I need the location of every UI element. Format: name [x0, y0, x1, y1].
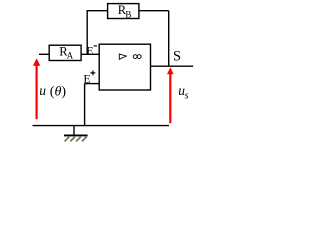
ground	[64, 126, 88, 142]
wire ground rail	[33, 125, 170, 127]
op-amp triangle (infinite gain symbol)	[119, 54, 126, 59]
wire E+ down to ground rail	[84, 84, 86, 126]
svg-text:s: s	[185, 91, 189, 102]
resistor RB	[108, 3, 139, 19]
label E- (inverting input)	[86, 44, 97, 58]
wire feedback top-right horizontal	[139, 10, 169, 12]
wire output (S node)	[151, 65, 194, 67]
svg-text:A: A	[67, 50, 74, 60]
op-amp infinity symbol	[133, 55, 141, 59]
op-amp U1 box	[99, 44, 150, 90]
wire RA to E- input	[81, 53, 99, 55]
svg-text:B: B	[125, 9, 131, 19]
wire feedback top-left horizontal	[87, 10, 108, 12]
label E+ (non-inverting input)	[83, 71, 95, 86]
svg-text:u: u	[39, 83, 46, 98]
wire E+ input horizontal	[85, 83, 100, 85]
svg-text:E: E	[86, 44, 93, 58]
wire feedback right vertical (down to S node)	[168, 11, 170, 66]
label u_s	[178, 83, 188, 101]
source arrow u_s	[167, 67, 174, 123]
svg-text:(θ): (θ)	[50, 85, 67, 100]
resistor RA	[49, 45, 81, 61]
svg-text:S: S	[173, 49, 181, 65]
wire input terminal to RA	[39, 53, 49, 55]
wire feedback left vertical (E- node to RB)	[86, 11, 88, 55]
source arrow u(theta)	[33, 58, 40, 119]
